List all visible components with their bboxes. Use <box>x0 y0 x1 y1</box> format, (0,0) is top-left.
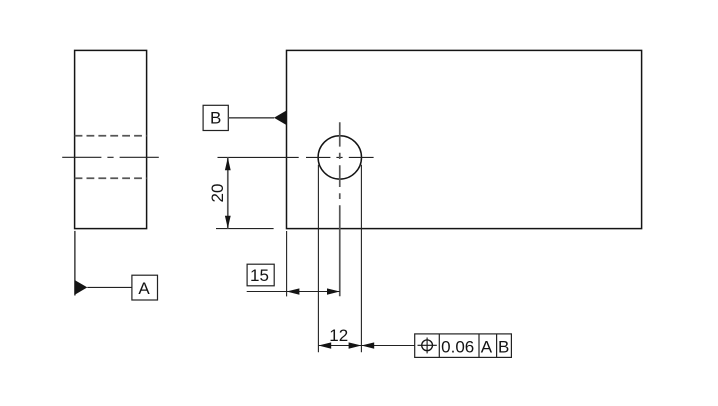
dim 20 arrow down <box>225 216 231 229</box>
datum B triangle <box>274 110 287 125</box>
feature control frame box <box>415 334 512 358</box>
svg-text:0.06: 0.06 <box>441 338 474 357</box>
dim 15 arrow right <box>327 288 340 294</box>
svg-text:B: B <box>498 338 509 357</box>
datum A triangle <box>75 280 88 295</box>
dim 15 dimension line with leader <box>247 291 340 293</box>
dim 15 extension line (left edge) <box>286 231 288 296</box>
dim 12 extension line right <box>360 165 362 353</box>
FCF leader line <box>361 345 414 347</box>
hidden line lower (hole bottom) <box>75 177 147 179</box>
datum A extension line <box>74 231 76 296</box>
dim 15 arrow left <box>287 288 300 294</box>
FCF tolerance value 0.06 <box>441 338 474 357</box>
dim 12 text <box>329 326 348 345</box>
dim 12 arrow left <box>318 342 331 348</box>
FCF leader arrow <box>361 342 374 348</box>
hidden line upper (hole top) <box>75 135 147 137</box>
datum A leader <box>87 286 132 288</box>
svg-text:A: A <box>138 279 150 298</box>
dim 20 extension line top (to circle center) <box>218 156 299 158</box>
left view outline <box>75 50 147 228</box>
dim 12 extension line left <box>317 165 319 353</box>
dim 15 basic box <box>247 264 274 286</box>
hole vertical centerline <box>339 122 341 296</box>
svg-text:B: B <box>210 109 221 128</box>
datum B label box <box>203 105 228 130</box>
hole horizontal centerline <box>306 156 374 158</box>
FCF datum reference B <box>498 338 509 357</box>
dim 20 text <box>208 184 227 203</box>
datum A label box <box>132 275 158 300</box>
svg-text:15: 15 <box>250 266 269 285</box>
dim 12 arrow right <box>349 342 362 348</box>
position tolerance symbol <box>418 338 437 354</box>
front view outline <box>287 50 642 228</box>
dim 20 dimension line <box>227 157 229 228</box>
svg-text:12: 12 <box>329 326 348 345</box>
svg-text:20: 20 <box>208 184 227 203</box>
dim 20 extension line bottom <box>216 228 274 230</box>
svg-text:A: A <box>481 338 493 357</box>
FCF datum reference A <box>481 338 493 357</box>
centerline left view <box>62 156 159 158</box>
dim 20 arrow up <box>225 158 231 171</box>
datum B leader <box>228 117 274 119</box>
hole circle <box>318 136 361 179</box>
dim 12 dimension line <box>318 345 361 347</box>
